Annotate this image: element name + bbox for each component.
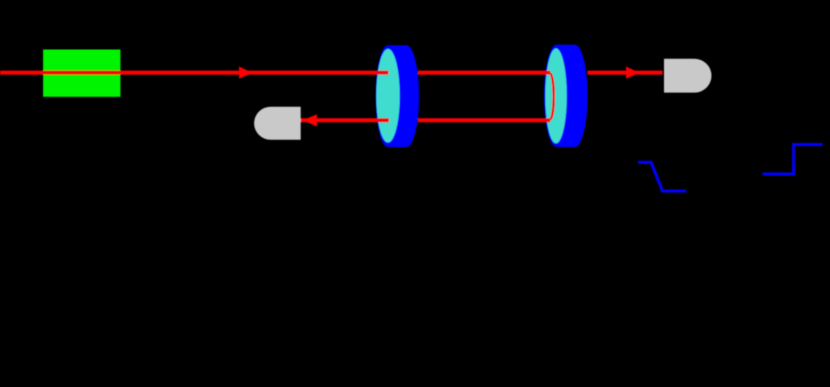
arrow on input beam — [239, 67, 252, 79]
beam: laser to M1 — [0, 71, 389, 75]
transmitted-light detector (gray, rounded right) — [664, 59, 711, 93]
mirror M2 cyan face — [545, 48, 566, 143]
beam: M2 to transmitted detector — [588, 71, 663, 75]
laser (green box) — [43, 50, 120, 97]
beam: intracavity upper — [418, 71, 550, 75]
reflection arc on M2 face — [550, 74, 553, 120]
arrow to reflected detector (points left) — [303, 114, 317, 126]
waveform: input step — [763, 145, 823, 175]
reflected-light detector (gray, rounded left) — [254, 107, 301, 140]
beam: M1 to reflected detector — [300, 118, 389, 122]
waveform: ring-down decay — [638, 162, 686, 191]
mirror M2 blue body — [544, 45, 588, 147]
mirror M1 cyan face — [376, 49, 399, 143]
mirror M1 blue body — [376, 45, 420, 147]
arrow to transmitted detector (points right) — [626, 67, 639, 79]
beam: intracavity lower — [418, 118, 550, 122]
